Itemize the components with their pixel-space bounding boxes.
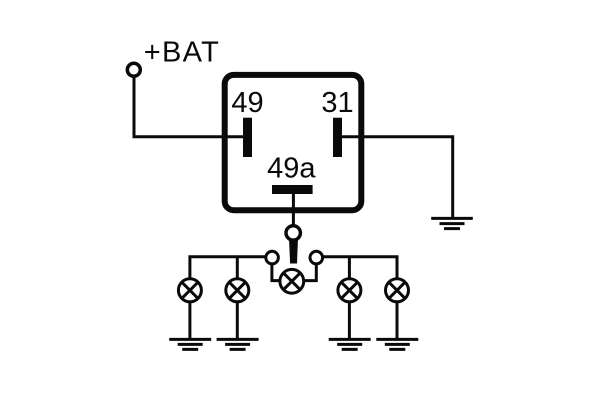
- wire right branch to lamps L3 L4: [316, 257, 397, 279]
- wire +BAT terminal to pin 49: [134, 78, 244, 137]
- lamp L4 (right outer indicator): [386, 279, 409, 302]
- wire left branch to lamps L1 L2: [190, 257, 272, 279]
- relay K1 box: [225, 75, 362, 210]
- pin 49a terminal bar: [272, 185, 313, 194]
- wire lamp L1 to ground: [188, 300, 191, 339]
- wire left contact to pilot lamp: [272, 258, 292, 281]
- switch lever: [289, 241, 298, 264]
- ground symbol (lamp L4): [376, 339, 418, 349]
- pin 31 terminal bar: [333, 118, 342, 157]
- lamp L3 (right inner indicator): [338, 279, 361, 302]
- lamp L2 (left inner indicator): [226, 279, 249, 302]
- svg-text:+BAT: +BAT: [144, 37, 220, 69]
- switch input terminal node: [286, 226, 300, 240]
- wire lamp L2 to ground: [236, 300, 239, 339]
- wire lamp L4 to ground: [396, 300, 399, 339]
- switch contact right: [310, 251, 323, 264]
- ground symbol (lamp L1): [169, 339, 211, 349]
- ground symbol (pin 31): [431, 218, 473, 228]
- wire pin 31 to ground: [342, 137, 453, 218]
- switch contact left: [266, 251, 279, 264]
- ground symbol (lamp L3): [329, 339, 371, 349]
- +BAT terminal: [127, 63, 140, 76]
- ground symbol (lamp L2): [217, 339, 259, 349]
- lamp L1 (left outer indicator): [178, 279, 201, 302]
- svg-text:31: 31: [321, 87, 353, 119]
- wire pin 49a to switch terminal: [292, 194, 295, 227]
- svg-text:49: 49: [231, 87, 263, 119]
- wire lamp L3 to ground: [348, 300, 351, 339]
- svg-text:49a: 49a: [267, 153, 316, 185]
- pin 49 terminal bar: [243, 118, 252, 157]
- pilot lamp L5 (center): [280, 269, 304, 293]
- wire right contact to pilot lamp: [292, 258, 317, 281]
